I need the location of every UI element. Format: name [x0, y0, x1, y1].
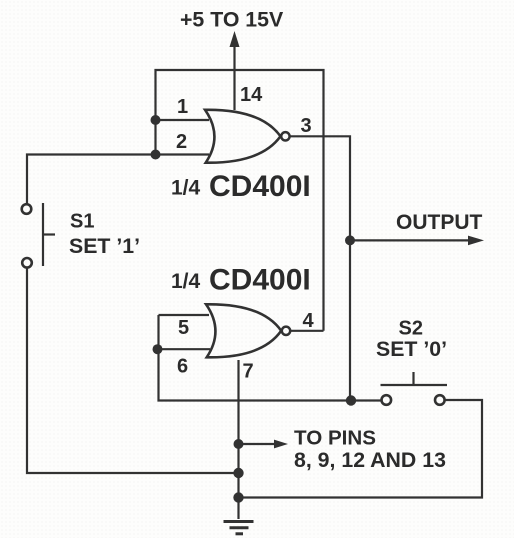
svg-text:14: 14 — [240, 84, 263, 106]
svg-text:S1: S1 — [70, 211, 94, 233]
svg-text:SET ’1’: SET ’1’ — [69, 234, 140, 258]
svg-text:4: 4 — [303, 310, 315, 332]
svg-text:1: 1 — [177, 96, 188, 118]
svg-text:6: 6 — [177, 356, 188, 378]
svg-text:2: 2 — [176, 131, 187, 153]
svg-text:1/4: 1/4 — [171, 177, 201, 200]
svg-text:8, 9, 12 AND 13: 8, 9, 12 AND 13 — [294, 448, 446, 472]
svg-text:OUTPUT: OUTPUT — [396, 211, 483, 234]
svg-text:CD400I: CD400I — [209, 264, 311, 297]
svg-text:+5 TO 15V: +5 TO 15V — [180, 8, 284, 32]
svg-text:7: 7 — [243, 361, 254, 383]
svg-text:3: 3 — [301, 115, 312, 137]
svg-text:5: 5 — [178, 317, 189, 339]
svg-text:1/4: 1/4 — [171, 270, 201, 293]
svg-text:TO PINS: TO PINS — [294, 427, 376, 450]
svg-text:CD400I: CD400I — [209, 170, 311, 203]
svg-text:SET ’0’: SET ’0’ — [376, 337, 447, 361]
